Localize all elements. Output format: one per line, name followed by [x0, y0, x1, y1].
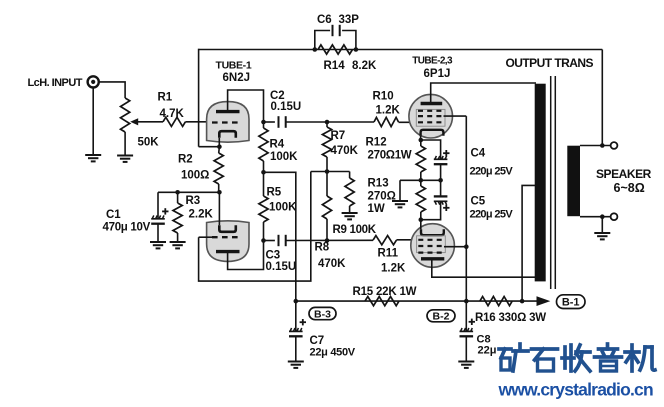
node B-2 junction [464, 299, 469, 304]
capacitor C7 body [289, 330, 303, 332]
resistor R14 body [318, 45, 353, 54]
svg-text:2.2K: 2.2K [189, 209, 214, 221]
capacitor C8 body [460, 330, 474, 332]
wire R2 bottom [218, 184, 220, 192]
resistor R13 body [416, 186, 425, 212]
tube V1a grid dashes [212, 121, 241, 123]
ground R9 [342, 212, 358, 214]
wire R7 bottom bus [311, 171, 350, 173]
capacitor C6 loop right [342, 31, 356, 50]
resistor R2 body [214, 153, 223, 184]
capacitor C8 plus [469, 321, 475, 323]
tube V2 grid g1 dashes [418, 121, 444, 123]
svg-text:22μ: 22μ [478, 345, 497, 357]
capacitor C5 body [434, 195, 448, 197]
node R7 bottom [325, 169, 330, 174]
node R2 bottom [217, 190, 222, 195]
tube V3 grid g3 dashes [418, 252, 444, 254]
wire R10 to grid [399, 121, 419, 123]
capacitor C6 plates [332, 25, 334, 36]
svg-text:B-1: B-1 [562, 297, 580, 309]
tube V3 grid g1 dashes [418, 239, 444, 241]
svg-text:8.2K: 8.2K [352, 60, 377, 72]
capacitor C5 plus [443, 207, 449, 209]
node B-3 junction [294, 299, 299, 304]
node mid R12 [419, 178, 424, 183]
node cathode V1a junction [217, 144, 222, 149]
svg-text:B-2: B-2 [433, 311, 450, 323]
svg-text:R15 22K 1W: R15 22K 1W [353, 286, 417, 298]
wire B rail [296, 300, 537, 302]
tube V2 plate bar [421, 102, 443, 105]
tube V3 plate bar [421, 257, 444, 260]
svg-text:1W: 1W [368, 203, 385, 215]
ground C8 [458, 361, 474, 363]
node R14 right [354, 47, 359, 52]
svg-text:R16 330Ω 3W: R16 330Ω 3W [475, 312, 546, 324]
wire V2 screen lead [444, 115, 467, 117]
wire C2 right [286, 121, 374, 123]
node speaker bottom [600, 214, 605, 219]
input jack J1 [88, 76, 99, 87]
svg-text:C7: C7 [310, 335, 325, 347]
wire jack ground stem [92, 88, 94, 155]
wire R7 leads [326, 122, 328, 127]
wire C3 right to R8 [286, 239, 373, 241]
tube V1a envelope [207, 102, 249, 143]
wire wiper to R1 [138, 121, 163, 123]
tube V3 cathode [421, 229, 444, 235]
wire T1 center tap [522, 185, 535, 301]
wire V3 screen lead [444, 246, 466, 248]
wire C7 stem bottom [295, 336, 297, 361]
node C3 left junction [261, 238, 266, 243]
node R4 R5 junction [261, 170, 266, 175]
resistor R12 body [416, 146, 425, 172]
wire mid ground stem [399, 180, 401, 200]
svg-text:C3: C3 [266, 250, 281, 262]
ground jack [85, 154, 101, 156]
transformer T1 primary [535, 84, 546, 282]
wire C4 bottom [440, 164, 442, 180]
svg-text:270Ω: 270Ω [368, 191, 396, 203]
wire R4 leads [263, 122, 265, 128]
wire secondary top [580, 145, 611, 147]
svg-text:R4: R4 [270, 139, 285, 151]
resistor R4 body [259, 128, 268, 161]
svg-text:6P1J: 6P1J [424, 68, 451, 80]
transformer T1 secondary [567, 146, 580, 217]
ground C1 [150, 241, 166, 243]
svg-text:50K: 50K [138, 137, 160, 149]
wire R8 leads [326, 172, 328, 197]
wire C5 top [440, 180, 442, 196]
wire R3 leads [177, 192, 179, 203]
svg-text:R12: R12 [366, 137, 387, 149]
svg-text:LcH. INPUT: LcH. INPUT [28, 77, 83, 89]
node B-1 junction [520, 299, 525, 304]
node R14 left [313, 47, 318, 52]
svg-text:C5: C5 [471, 196, 486, 208]
svg-text:www.crystalradio.cn: www.crystalradio.cn [498, 380, 653, 400]
tube V2 beam box [416, 109, 445, 126]
transformer T1 core [550, 76, 552, 289]
tube V3 beam box [417, 236, 446, 253]
tube V3 envelope [411, 224, 455, 268]
tube V1b grid dashes [212, 236, 241, 238]
svg-text:270Ω1W: 270Ω1W [368, 150, 412, 162]
resistor R3 body [173, 203, 182, 233]
svg-text:TUBE-1: TUBE-1 [216, 60, 252, 72]
wire B-3 riser [264, 172, 296, 301]
tube V2 envelope [409, 94, 453, 138]
wire R11 to grid [396, 239, 418, 241]
terminal speaker top [611, 142, 618, 149]
wire V3 cathode lead [420, 220, 422, 230]
svg-text:100K: 100K [269, 202, 297, 214]
wire V1b cathode lead [218, 192, 220, 225]
wire V1a plate lead [228, 90, 264, 122]
svg-text:R14: R14 [324, 60, 346, 72]
svg-text:R3: R3 [186, 195, 201, 207]
arrow B-1 [537, 296, 551, 306]
svg-text:4.7K: 4.7K [160, 108, 185, 120]
resistor R16 body [480, 297, 512, 306]
svg-text:OUTPUT TRANS: OUTPUT TRANS [506, 56, 594, 70]
resistor R15 body [365, 297, 399, 306]
wire R1 to grid [185, 121, 213, 123]
tube V1b plate bar [216, 250, 240, 253]
svg-text:C1: C1 [106, 209, 121, 221]
node speaker top [600, 143, 605, 148]
capacitor C3 body [278, 235, 280, 246]
tag B-3 [309, 307, 336, 319]
wire C3 left [264, 240, 275, 242]
svg-text:100Ω: 100Ω [181, 170, 209, 182]
svg-text:R10: R10 [373, 91, 394, 103]
svg-text:22μ 450V: 22μ 450V [310, 347, 356, 359]
wire R2 top [218, 147, 221, 153]
ground mid bias [392, 200, 408, 202]
node R7 top [325, 120, 330, 125]
resistor R9 body [345, 178, 354, 206]
ground R3 [170, 241, 186, 243]
wire cathode bus [158, 191, 219, 193]
node R3 top [175, 190, 180, 195]
wire R12 leads [420, 140, 422, 146]
svg-text:R13: R13 [368, 178, 389, 190]
svg-text:220μ 25V: 220μ 25V [470, 166, 514, 178]
wire V1b grid loop [199, 172, 311, 282]
tube V2 grid g2 dashes [418, 115, 444, 117]
tube V1a plate bar [216, 110, 240, 113]
svg-text:C6: C6 [317, 14, 332, 26]
svg-text:R9 100K: R9 100K [333, 224, 377, 236]
svg-text:470μ 10V: 470μ 10V [103, 222, 151, 234]
capacitor C1 plus [162, 210, 168, 212]
resistor R5 body [259, 196, 268, 222]
wire C8 stem top [465, 301, 467, 331]
ground speaker [594, 232, 610, 234]
tube V1b envelope [207, 221, 249, 262]
node screen rail junction [464, 244, 469, 249]
watermark text big [499, 344, 655, 371]
wire feedback top [199, 49, 603, 51]
wire feedback to cathode [199, 146, 220, 148]
resistor R10 body [374, 117, 399, 126]
wire R5 leads [263, 172, 265, 196]
tube V1b cathode [219, 225, 236, 232]
svg-text:470K: 470K [331, 145, 359, 157]
svg-text:220μ 25V: 220μ 25V [470, 209, 514, 221]
svg-text:R5: R5 [267, 187, 282, 199]
pot wiper arrow [130, 118, 138, 125]
resistor R11 body [373, 236, 396, 245]
tag B-2 [427, 310, 455, 322]
tube V1a cathode [219, 131, 236, 138]
tag B-1 [557, 295, 586, 309]
svg-text:TUBE-2,3: TUBE-2,3 [412, 56, 453, 67]
capacitor C1 stem top [157, 192, 159, 218]
resistor R1 body [163, 117, 185, 126]
node R8 bottom [325, 238, 330, 243]
wire C2 left [264, 121, 275, 123]
capacitor C1 body [151, 218, 165, 220]
svg-text:0.15U: 0.15U [271, 101, 302, 113]
wire V2 plate lead [431, 83, 536, 104]
svg-text:33P: 33P [339, 14, 360, 26]
wire speaker ground stem [601, 217, 603, 233]
wire secondary bottom [580, 216, 611, 218]
wire feedback left drop [198, 49, 200, 147]
node V2 cathode junction [419, 138, 424, 143]
svg-text:SPEAKER: SPEAKER [596, 167, 652, 181]
terminal speaker bottom [611, 213, 618, 220]
wire R9 leads [349, 172, 351, 179]
svg-text:1.2K: 1.2K [376, 105, 401, 117]
svg-text:R1: R1 [158, 92, 173, 104]
svg-text:6~8Ω: 6~8Ω [614, 181, 645, 195]
wire pot bottom [124, 132, 126, 155]
capacitor C4 body [434, 158, 448, 160]
svg-text:B-3: B-3 [314, 308, 331, 320]
wire V2 cathode lead [420, 136, 422, 140]
svg-text:470K: 470K [318, 258, 346, 270]
svg-text:R8: R8 [315, 242, 330, 254]
wire C4 top [421, 140, 441, 159]
wire mid ground bus [400, 179, 441, 181]
svg-text:100K: 100K [270, 151, 298, 163]
svg-text:R7: R7 [331, 130, 346, 142]
svg-text:1.2K: 1.2K [381, 263, 406, 275]
resistor R7 body [322, 127, 331, 157]
capacitor C6 loop left [315, 31, 330, 50]
capacitor C7 plus [300, 321, 306, 323]
svg-text:0.15U: 0.15U [266, 261, 297, 273]
potentiometer VR1 50K body [121, 98, 130, 132]
node V3 cathode junction [419, 217, 424, 222]
svg-text:C4: C4 [471, 148, 486, 160]
wire C5 bottom [421, 202, 441, 220]
wire jack to pot [99, 82, 125, 98]
wire R13 leads [420, 180, 422, 186]
node C2 left junction [261, 120, 266, 125]
svg-text:R2: R2 [178, 154, 193, 166]
svg-text:6N2J: 6N2J [223, 72, 251, 84]
capacitor C4 plus [443, 152, 449, 154]
resistor R8 body [322, 196, 331, 219]
ground C7 [288, 361, 304, 363]
wire C8 stem bottom [465, 336, 467, 361]
wire C7 stem top [295, 301, 297, 331]
tube V3 grid g2 dashes [418, 245, 444, 247]
wire V3 plate lead [432, 259, 536, 277]
wire screen rail [465, 116, 467, 301]
tube V2 cathode [421, 130, 444, 136]
wire feedback right drop [601, 50, 603, 146]
wire V1b grid lead [199, 236, 212, 238]
tube V2 grid g3 dashes [418, 110, 444, 112]
ground pot [117, 155, 133, 157]
wire V1a cathode lead [218, 138, 220, 147]
wire V1b plate lead [228, 241, 264, 270]
capacitor C2 body [278, 116, 280, 128]
capacitor C1 stem bottom [157, 224, 159, 242]
svg-text:R11: R11 [378, 248, 399, 260]
node mid C4 [438, 178, 443, 183]
